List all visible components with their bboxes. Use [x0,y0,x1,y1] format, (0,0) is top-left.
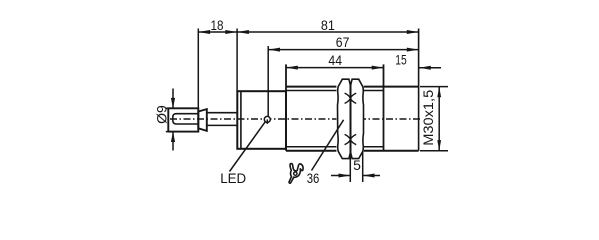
connector barrel [168,108,198,131]
dim 67 arrow left [268,48,280,52]
svg-text:LED: LED [220,170,246,186]
svg-text:M30x1,5: M30x1,5 [420,90,436,146]
M30 arrow down [437,140,441,151]
36 leader line [312,120,344,171]
dim 18 extension right [236,29,238,91]
nut 1 outline [338,79,351,158]
67 extension line to LED [267,46,269,116]
dim 81 arrow right [407,30,419,34]
nut lower facet arcs [345,134,357,144]
M30 extension top [420,86,448,88]
svg-text:81: 81 [321,17,335,33]
connector inner sleeve [173,114,199,124]
M30 dim line [438,87,440,151]
svg-text:44: 44 [328,52,342,68]
svg-text:15: 15 [395,52,407,68]
dim 44 arrow right [372,66,384,70]
dim 44 arrow left [286,66,298,70]
svg-text:18: 18 [211,17,224,33]
dim line 81 [237,31,419,33]
thread crest top [286,86,419,88]
M30 arrow up [437,87,441,98]
centerline [170,118,422,120]
dia 9 edge stub top [166,107,169,109]
svg-text:Ø9: Ø9 [153,105,169,124]
body section 1 inner left line [240,91,242,149]
dim 18 extension left [197,29,199,108]
svg-text:67: 67 [336,34,350,50]
nut 2 outline [351,79,364,158]
dim line 18 [198,31,237,33]
dim 5 arrow left [331,175,350,177]
dim 5 extension left [349,154,351,183]
dim 5 extension right [362,152,364,182]
dia 9 edge stub bottom [166,131,169,133]
thread end line / 44 right extension [383,64,385,150]
dim line 67 [268,49,418,51]
dia 9 arrow bottom [172,132,174,150]
dim line 44 [286,67,384,69]
svg-text:36: 36 [307,170,320,186]
step line / 44 left extension [285,64,287,150]
thread root bottom [286,146,384,148]
svg-text:5: 5 [353,157,361,173]
dim 18 arrow left [198,30,210,34]
thread root top [286,90,384,92]
dim 18 arrow right [225,30,237,34]
wrench symbol [289,164,303,184]
dim 5 arrow right [363,175,380,177]
dim 81 arrow left [237,30,249,34]
LED vertical below circle [266,119,268,124]
dim 15 outside arrow [419,67,441,69]
connector shaft wire top [207,112,238,114]
connector shaft wire bottom [207,124,238,126]
dim 67 arrow right [407,48,419,52]
LED leader line [230,122,266,172]
LED circle [264,116,270,122]
nut upper facet arcs [345,93,357,103]
body section 1 outline [237,91,286,149]
dia 9 arrow top [172,89,174,108]
M30 extension bottom [420,150,448,152]
connector cone [198,109,207,131]
body right edge / 81-67 extension [418,29,420,151]
thread crest bottom [286,150,419,152]
nut pair white mask [336,78,363,159]
